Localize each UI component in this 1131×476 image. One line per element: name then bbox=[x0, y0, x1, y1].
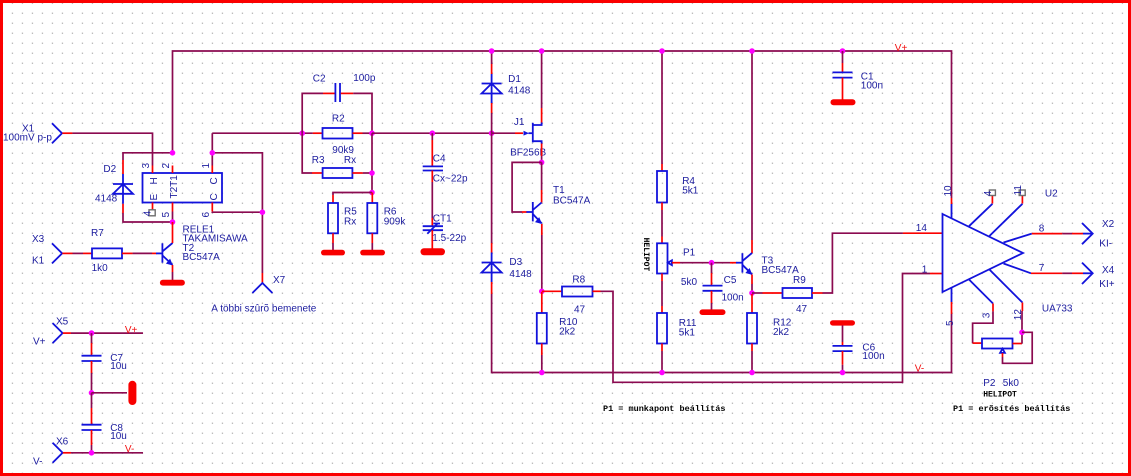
ground C1 bbox=[831, 99, 856, 105]
svg-text:X2: X2 bbox=[1102, 219, 1115, 230]
wire P2 wiper loop bbox=[1003, 332, 1033, 363]
capacitor C2 left lead bbox=[323, 92, 335, 94]
svg-text:1k0: 1k0 bbox=[92, 263, 109, 274]
wire R4 to P1 bbox=[661, 210, 663, 237]
diode D2 bottom lead bbox=[122, 204, 124, 213]
svg-text:KI-: KI- bbox=[1099, 239, 1112, 250]
transistor T3 bbox=[736, 253, 752, 275]
svg-text:4148: 4148 bbox=[509, 269, 532, 280]
svg-text:100n: 100n bbox=[862, 351, 884, 362]
svg-text:4: 4 bbox=[143, 210, 154, 216]
capacitor C6 bottom lead bbox=[842, 351, 844, 365]
wire C5 to ground bbox=[711, 303, 713, 310]
svg-text:A többi szûrõ bemenete: A többi szûrõ bemenete bbox=[211, 304, 317, 315]
connector X6 bbox=[53, 443, 71, 463]
wire mid node to ground bbox=[92, 392, 128, 394]
svg-text:100p: 100p bbox=[353, 73, 376, 84]
wire R11 to V- rail bbox=[661, 351, 663, 373]
ground R6 bbox=[360, 250, 385, 256]
svg-text:100mV p-p: 100mV p-p bbox=[3, 132, 52, 143]
relay pin 2 lead bbox=[172, 166, 174, 174]
capacitor C1 top lead bbox=[842, 63, 844, 72]
svg-text:2: 2 bbox=[161, 163, 172, 169]
junction V+ C1 bbox=[840, 48, 846, 54]
svg-text:T1: T1 bbox=[553, 185, 565, 196]
svg-text:5k1: 5k1 bbox=[682, 186, 699, 197]
wire pin12 to P2 right bbox=[1021, 311, 1023, 344]
wire C1 drop bbox=[842, 51, 844, 63]
potentiometer P1 top lead bbox=[661, 237, 663, 244]
svg-text:D3: D3 bbox=[509, 257, 522, 268]
svg-text:14: 14 bbox=[916, 223, 928, 234]
svg-text:C4: C4 bbox=[433, 153, 446, 164]
wire relay pin1 riser bbox=[211, 133, 213, 165]
junction X6 node bbox=[89, 450, 95, 456]
wire bus R2 to C4 bbox=[372, 132, 492, 134]
wire R12 to V- rail bbox=[751, 351, 753, 373]
svg-text:V+: V+ bbox=[125, 325, 138, 336]
junction mid supply node bbox=[89, 390, 95, 396]
T2 collector lead bbox=[172, 222, 174, 243]
svg-text:4148: 4148 bbox=[508, 86, 531, 97]
junction P2 pin12 bbox=[1019, 330, 1025, 336]
svg-text:X7: X7 bbox=[273, 275, 286, 286]
resistor R7 lead left bbox=[83, 252, 92, 254]
diode D1 top lead bbox=[491, 64, 493, 74]
J1 gate arrow bbox=[524, 131, 530, 136]
wire J1 source to node bbox=[541, 156, 543, 162]
wire relay pin 5 to node bbox=[172, 212, 174, 223]
wire P1 wiper to T3 base bbox=[680, 262, 730, 264]
wire C6 to V- rail bbox=[842, 365, 844, 373]
junction relay pin2 node bbox=[170, 150, 176, 156]
wire R6 to ground bbox=[371, 243, 373, 250]
ground mid supply (vertical bar) bbox=[128, 381, 136, 405]
relay pin 5 lead bbox=[172, 203, 174, 212]
junction V- R11 bbox=[659, 370, 665, 376]
resistor R5 top lead bbox=[332, 195, 334, 203]
wire T1 emitter to R8 node bbox=[541, 235, 543, 291]
potentiometer P2 bbox=[982, 339, 1013, 353]
svg-text:Cx~22p: Cx~22p bbox=[433, 173, 468, 184]
svg-text:K1: K1 bbox=[32, 256, 45, 267]
svg-text:X3: X3 bbox=[32, 234, 45, 245]
svg-text:C2: C2 bbox=[313, 74, 326, 85]
capacitor C1 bottom lead bbox=[842, 78, 844, 100]
resistor R6 bbox=[367, 203, 377, 233]
op-amp pin3 stub bbox=[992, 304, 994, 312]
svg-text:P1 = erõsítés beállítás: P1 = erõsítés beállítás bbox=[953, 404, 1070, 414]
capacitor C7 bottom lead bbox=[91, 361, 93, 373]
wire D3 column bbox=[491, 133, 493, 243]
wire D3 to V- rail corner bbox=[492, 294, 952, 373]
svg-text:V-: V- bbox=[33, 456, 42, 467]
junction X7 branch bbox=[260, 209, 266, 215]
capacitor C5 bottom lead bbox=[711, 291, 713, 303]
wire R7 to T2 base bbox=[133, 252, 152, 254]
svg-text:UA733: UA733 bbox=[1042, 304, 1073, 315]
op-amp pin12 slant bbox=[989, 270, 1022, 303]
T2 base lead bbox=[152, 252, 157, 254]
relay pin 6 lead bbox=[211, 203, 213, 212]
svg-text:1: 1 bbox=[922, 265, 928, 276]
wire X1 bus to relay pin 3 bbox=[72, 133, 152, 165]
op-amp pin12 stub bbox=[1021, 303, 1023, 312]
svg-text:P2: P2 bbox=[983, 378, 996, 389]
svg-text:P1: P1 bbox=[683, 248, 696, 259]
svg-text:V-: V- bbox=[915, 363, 924, 374]
ground CT1 bbox=[421, 248, 446, 255]
svg-text:V+: V+ bbox=[33, 336, 46, 347]
transistor T1 bbox=[526, 202, 542, 224]
ground R5 bbox=[321, 250, 345, 256]
junction V+ J1 bbox=[539, 48, 545, 54]
connector X3 bbox=[52, 243, 73, 263]
T2 emitter lead bbox=[172, 265, 174, 272]
wire C4 to CT1 bbox=[431, 182, 433, 218]
J1 drain lead bbox=[541, 108, 543, 123]
junction R6 top bbox=[369, 190, 375, 196]
potentiometer P2 right lead bbox=[1013, 343, 1023, 345]
junction bus C2 right bbox=[369, 130, 375, 136]
svg-text:R3: R3 bbox=[312, 155, 325, 166]
resistor R6 top lead bbox=[371, 193, 373, 204]
P1 wiper lead bbox=[672, 262, 680, 264]
relay pin 1 lead bbox=[211, 166, 213, 174]
svg-text:CT1: CT1 bbox=[433, 214, 452, 225]
T1 base lead bbox=[522, 211, 527, 213]
svg-text:1.5-22p: 1.5-22p bbox=[432, 233, 466, 244]
wire D1 to bus bbox=[491, 113, 493, 133]
capacitor C6 top lead bbox=[842, 342, 844, 346]
wire D1 column from V+ bbox=[491, 51, 493, 64]
wire pin1 node to X7 branch bbox=[212, 153, 262, 273]
op-amp U2 pin10 lead bbox=[951, 198, 953, 204]
diode D3 bbox=[482, 253, 502, 283]
wire R5 to ground bbox=[332, 243, 334, 250]
wire T3 collector column from V+ bbox=[751, 51, 753, 240]
svg-text:R9: R9 bbox=[793, 275, 806, 286]
junction bus C4 bbox=[430, 130, 436, 136]
svg-text:10u: 10u bbox=[110, 361, 127, 372]
wire R2 right to bus bbox=[363, 132, 373, 134]
svg-text:4: 4 bbox=[983, 190, 994, 196]
wire T2 emitter to ground bbox=[172, 272, 174, 280]
wire T3 emitter to node bbox=[751, 284, 753, 293]
resistor R9 bbox=[783, 288, 813, 298]
junction V- R12 bbox=[749, 370, 755, 376]
resistor R12 bottom lead bbox=[751, 344, 753, 352]
wire C8 to X6 bbox=[91, 445, 93, 453]
junction R3 right bbox=[369, 170, 375, 176]
svg-text:P1 = munkapont beállítás: P1 = munkapont beállítás bbox=[603, 404, 725, 414]
svg-text:D2: D2 bbox=[103, 164, 116, 175]
potentiometer P1 bbox=[657, 243, 672, 273]
wire X3 to R7 bbox=[73, 252, 84, 254]
op-amp pin1 lead bbox=[930, 273, 943, 275]
resistor R8 bbox=[562, 287, 593, 297]
wire X5 node down to C7 bbox=[91, 333, 93, 343]
svg-text:V-: V- bbox=[125, 444, 134, 455]
svg-text:5: 5 bbox=[945, 320, 956, 326]
capacitor C8 bbox=[82, 425, 102, 430]
svg-text:HELIPOT: HELIPOT bbox=[641, 238, 650, 272]
svg-text:Rx: Rx bbox=[344, 155, 356, 166]
J1 gate lead bbox=[515, 132, 523, 134]
svg-text:KI+: KI+ bbox=[1099, 279, 1114, 290]
svg-text:R8: R8 bbox=[572, 275, 585, 286]
capacitor C1 bbox=[833, 72, 853, 77]
svg-text:100n: 100n bbox=[722, 293, 744, 304]
resistor R9 left lead bbox=[763, 292, 783, 294]
resistor R2 bbox=[323, 128, 353, 139]
svg-text:1: 1 bbox=[201, 163, 212, 169]
svg-text:5k0: 5k0 bbox=[1003, 378, 1020, 389]
connector X4 bbox=[1082, 263, 1093, 284]
wire D2 bottom to T2 collector node bbox=[123, 213, 173, 222]
junction V- R10 bbox=[539, 370, 545, 376]
relay pin 3 lead bbox=[152, 166, 154, 174]
wire C4 drop bbox=[431, 133, 433, 140]
junction V+ T3 bbox=[749, 48, 755, 54]
P2 wiper lead bbox=[1002, 353, 1004, 357]
op-amp pin4 stub bbox=[991, 196, 993, 204]
svg-text:5: 5 bbox=[161, 212, 172, 218]
op-amp U2 triangle bbox=[943, 214, 1024, 292]
junction R8 node bbox=[539, 289, 545, 295]
wire J1 drain to V+ bbox=[541, 51, 543, 108]
junction V+ D1 bbox=[489, 48, 495, 54]
wire X5 V+ stub bbox=[71, 332, 143, 334]
capacitor CT1 bottom lead bbox=[431, 230, 433, 248]
capacitor C4 bbox=[423, 166, 443, 170]
wire pin7 output bbox=[1031, 272, 1083, 274]
ground C6 (above) bbox=[830, 320, 855, 325]
svg-text:J1: J1 bbox=[514, 117, 525, 128]
wire D2 top to relay pin 2 bbox=[123, 153, 173, 160]
svg-text:C5: C5 bbox=[724, 275, 737, 286]
ground T2 emitter bbox=[160, 280, 185, 286]
wire pin8 output bbox=[1032, 233, 1083, 235]
svg-text:H: H bbox=[149, 177, 160, 184]
resistor R8 right lead bbox=[593, 290, 601, 292]
wire C6 top bbox=[842, 325, 844, 342]
junction bus C2 left bbox=[299, 130, 305, 136]
svg-text:R7: R7 bbox=[91, 228, 104, 239]
svg-text:2k2: 2k2 bbox=[559, 326, 576, 337]
connector X5 bbox=[53, 323, 71, 343]
capacitor C5 bbox=[703, 286, 723, 291]
capacitor C6 bbox=[833, 346, 853, 351]
wire R9 to op-amp pin14 bbox=[823, 233, 903, 293]
wire pin3 to P2 left bbox=[973, 311, 993, 343]
svg-text:D1: D1 bbox=[508, 74, 521, 85]
wire C7 to mid node bbox=[91, 373, 93, 393]
capacitor C7 top lead bbox=[91, 343, 93, 355]
svg-text:2k2: 2k2 bbox=[773, 327, 790, 338]
connector X2 bbox=[1082, 223, 1093, 244]
J1 source lead bbox=[541, 144, 543, 157]
transistor J1 BF256B bbox=[533, 123, 542, 144]
ground C5 bbox=[700, 309, 726, 315]
op-amp pin11 slant bbox=[989, 204, 1022, 236]
wire V+ rail bbox=[173, 51, 952, 198]
relay pin 4 lead bbox=[152, 203, 154, 210]
junction T3 emitter node bbox=[749, 290, 755, 296]
svg-text:6: 6 bbox=[201, 212, 212, 218]
diode D1 bbox=[482, 74, 502, 103]
potentiometer P2 left lead bbox=[973, 342, 982, 344]
T1 collector lead bbox=[541, 190, 543, 203]
capacitor CT1 trimmer bbox=[423, 224, 443, 234]
resistor R12 top lead bbox=[751, 294, 753, 313]
relay pin 4 no-connect square bbox=[149, 210, 155, 216]
resistor R8 left lead bbox=[542, 290, 562, 292]
resistor R2 left lead bbox=[313, 132, 323, 134]
resistor R4 top lead bbox=[661, 164, 663, 171]
diode D3 top lead bbox=[491, 243, 493, 253]
connector X7 bbox=[252, 283, 272, 293]
resistor R10 bottom lead bbox=[541, 344, 543, 356]
wire R10 to V- rail bbox=[541, 355, 543, 373]
svg-text:C: C bbox=[209, 177, 220, 184]
resistor R11 bbox=[657, 313, 667, 344]
svg-text:Rx: Rx bbox=[344, 216, 356, 227]
wire C2R3 vertical link bbox=[371, 133, 373, 192]
resistor R3 right lead bbox=[352, 172, 362, 174]
T3 collector lead bbox=[751, 240, 753, 253]
svg-text:X5: X5 bbox=[56, 317, 69, 328]
capacitor C7 bbox=[82, 356, 102, 361]
wire C2 loop right bbox=[353, 93, 372, 133]
capacitor C8 top lead bbox=[91, 408, 93, 425]
T1 emitter lead bbox=[541, 224, 543, 235]
transistor T2 bbox=[156, 243, 173, 266]
resistor R9 right lead bbox=[812, 292, 823, 294]
op-amp pin7 slant bbox=[1004, 264, 1032, 274]
resistor R5 bottom lead bbox=[332, 233, 334, 243]
svg-text:X6: X6 bbox=[56, 437, 69, 448]
wire T1 collector column bbox=[541, 162, 543, 190]
diode D3 bottom lead bbox=[491, 282, 493, 294]
svg-text:3: 3 bbox=[141, 163, 152, 169]
svg-text:U2: U2 bbox=[1045, 188, 1058, 199]
svg-text:3: 3 bbox=[981, 312, 992, 318]
svg-text:BC547A: BC547A bbox=[553, 196, 591, 207]
capacitor C2 right lead bbox=[341, 92, 353, 94]
wire R4 column from V+ bbox=[661, 51, 663, 164]
wire X6 V- stub bbox=[71, 452, 143, 454]
diode D2 top lead bbox=[122, 160, 124, 174]
resistor R10 bbox=[537, 313, 547, 344]
capacitor CT1 top lead bbox=[431, 218, 433, 226]
svg-text:R2: R2 bbox=[332, 113, 345, 124]
capacitor C8 bottom lead bbox=[91, 430, 93, 445]
svg-text:10: 10 bbox=[943, 185, 954, 197]
capacitor C4 top lead bbox=[431, 140, 433, 166]
resistor R6 bottom lead bbox=[371, 233, 373, 243]
svg-text:C: C bbox=[209, 193, 220, 200]
resistor R11 top lead bbox=[661, 306, 663, 313]
junction T2 collector node bbox=[170, 219, 176, 225]
diode D1 bottom lead bbox=[491, 103, 493, 113]
wire node to R9 bbox=[752, 292, 763, 294]
svg-text:11: 11 bbox=[1013, 185, 1024, 196]
wire T1 feedback loop bbox=[512, 162, 542, 212]
resistor R10 top lead bbox=[541, 292, 543, 313]
op-amp pin8 slant bbox=[1004, 234, 1032, 243]
wire C2 loop left bbox=[302, 93, 323, 133]
svg-text:4148: 4148 bbox=[95, 193, 118, 204]
T3 emitter lead bbox=[751, 275, 753, 285]
svg-text:100n: 100n bbox=[861, 81, 883, 92]
diode D2 bbox=[113, 174, 133, 204]
resistor R5 bbox=[328, 203, 338, 233]
wire bus to J1 gate bbox=[492, 132, 515, 134]
wire R3 loop left bbox=[302, 133, 312, 173]
resistor R7 lead right bbox=[122, 252, 133, 254]
svg-text:HELIPOT: HELIPOT bbox=[983, 391, 1017, 400]
svg-text:E: E bbox=[149, 194, 160, 201]
wire mid node down bbox=[91, 393, 93, 408]
wire link to R5 bbox=[333, 193, 372, 196]
svg-text:5k1: 5k1 bbox=[679, 328, 696, 339]
op-amp pin4 slant bbox=[969, 204, 992, 226]
svg-text:909k: 909k bbox=[384, 216, 407, 227]
svg-text:47: 47 bbox=[796, 304, 808, 315]
potentiometer P1 bottom lead bbox=[661, 274, 663, 282]
wire relay pin 6 to X7 branch bbox=[212, 211, 262, 213]
resistor R3 bbox=[323, 168, 353, 178]
junction V+ R4 bbox=[659, 48, 665, 54]
op-amp pin14 lead bbox=[903, 232, 943, 234]
capacitor C5 top lead bbox=[711, 273, 713, 285]
svg-text:47: 47 bbox=[574, 305, 586, 316]
op-amp pin4 square bbox=[989, 190, 995, 196]
resistor R2 right lead bbox=[353, 132, 363, 134]
resistor R4 bottom lead bbox=[661, 203, 663, 211]
junction bus D1 bbox=[489, 130, 495, 136]
wire R8 to op-amp pin1 bbox=[601, 274, 931, 383]
op-amp pin11 square bbox=[1019, 190, 1025, 196]
op-amp pin3 slant bbox=[969, 280, 993, 304]
svg-text:BC547A: BC547A bbox=[183, 252, 221, 263]
junction C5 node bbox=[709, 260, 715, 266]
svg-text:5k0: 5k0 bbox=[681, 277, 698, 288]
relay RELE1 box bbox=[143, 173, 223, 203]
svg-text:T2T1: T2T1 bbox=[169, 175, 180, 199]
svg-text:10u: 10u bbox=[110, 431, 127, 442]
resistor R4 bbox=[657, 171, 667, 203]
wire signal bus pin1 to R2 bbox=[212, 132, 312, 134]
junction relay pin1 node bbox=[210, 150, 216, 156]
T3 base lead bbox=[730, 262, 736, 264]
resistor R12 bbox=[747, 313, 757, 344]
junction J1 source node bbox=[539, 160, 545, 166]
op-amp U2 pin5 lead bbox=[951, 288, 953, 302]
op-amp pin11 stub bbox=[1021, 196, 1023, 204]
svg-text:V+: V+ bbox=[895, 43, 908, 54]
wire R3 right to node bbox=[363, 172, 372, 174]
junction X5 node bbox=[89, 330, 95, 336]
wire X7 lead bbox=[261, 273, 263, 283]
wire C5 drop bbox=[711, 263, 713, 273]
resistor R11 bottom lead bbox=[661, 344, 663, 352]
capacitor C4 bottom lead bbox=[431, 171, 433, 183]
wire P1 to R11 bbox=[661, 281, 663, 306]
connector X1 bbox=[52, 123, 72, 143]
resistor R7 bbox=[92, 248, 122, 258]
